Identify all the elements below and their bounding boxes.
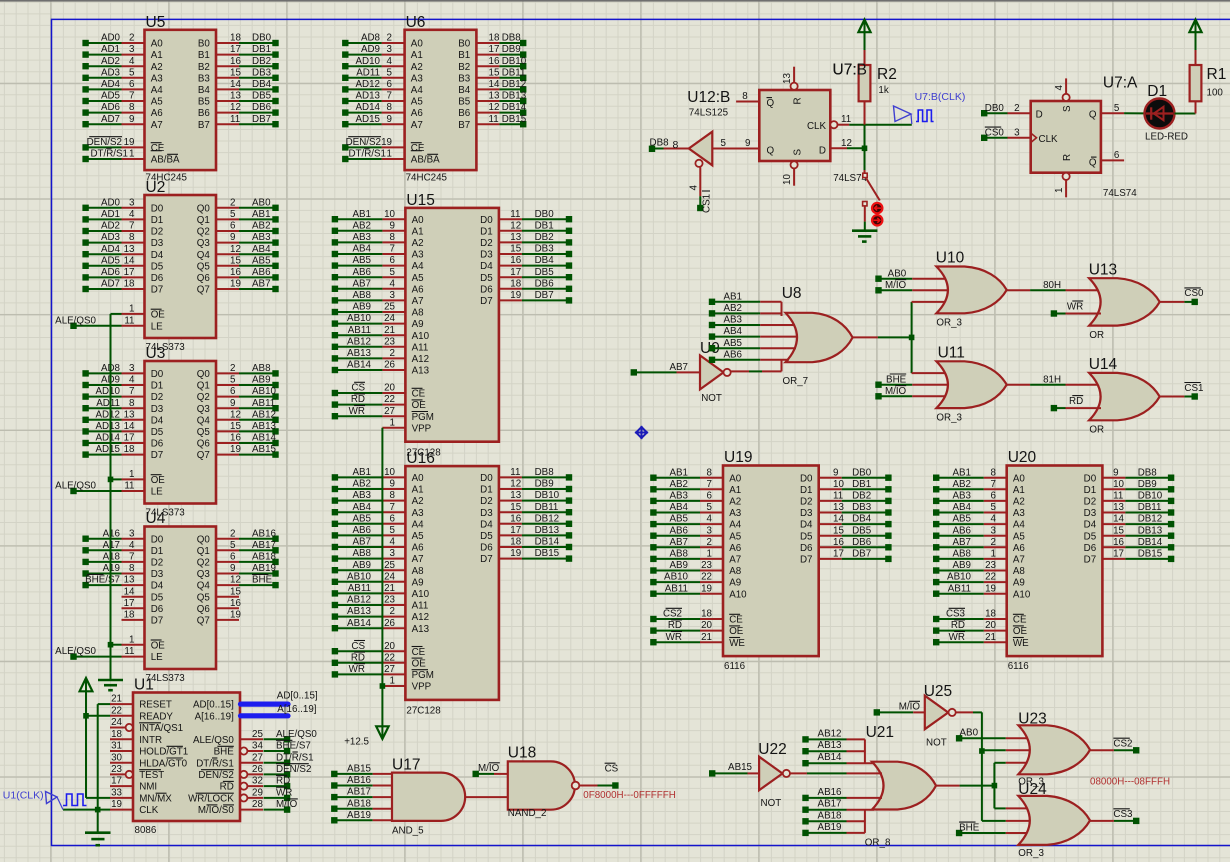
svg-text:12: 12 xyxy=(510,220,521,231)
svg-text:A1: A1 xyxy=(412,485,424,496)
svg-text:A4: A4 xyxy=(729,520,742,531)
U5 value 74HC245 xyxy=(146,173,188,184)
svg-text:AB5: AB5 xyxy=(352,513,371,524)
U7:A reference xyxy=(1103,75,1138,92)
U20 left pin 8 AB1 xyxy=(933,467,1025,484)
svg-text:8: 8 xyxy=(129,563,135,574)
svg-text:U8: U8 xyxy=(782,285,802,302)
U3 reference label xyxy=(146,345,166,362)
svg-text:A1: A1 xyxy=(412,226,424,237)
svg-text:D3: D3 xyxy=(480,250,493,261)
svg-text:R: R xyxy=(1062,154,1073,161)
svg-text:15: 15 xyxy=(230,255,241,266)
U5 left pin 2 AD0 xyxy=(82,33,163,50)
svg-text:19: 19 xyxy=(510,548,521,559)
wire switch to ground xyxy=(864,222,866,231)
U19 left pin 7 AB2 xyxy=(650,479,741,496)
svg-text:R: R xyxy=(793,97,804,104)
svg-text:3: 3 xyxy=(387,44,393,55)
svg-text:U5: U5 xyxy=(146,14,166,31)
U4 right pin 12 BHE xyxy=(197,574,279,591)
U20 left pin 6 AB3 xyxy=(933,491,1025,508)
svg-text:Q4: Q4 xyxy=(197,415,211,426)
svg-text:U16: U16 xyxy=(406,450,434,467)
svg-text:AB18: AB18 xyxy=(252,552,277,563)
svg-text:DB8: DB8 xyxy=(1138,467,1158,478)
svg-text:17: 17 xyxy=(489,44,500,55)
svg-text:15: 15 xyxy=(510,244,521,255)
net AB14 terminal + wire to U21 input xyxy=(802,752,874,766)
svg-text:AB9: AB9 xyxy=(952,560,971,571)
U16 left pin 2 AB13 xyxy=(332,606,429,623)
svg-text:DB12: DB12 xyxy=(502,79,527,90)
svg-text:AB3: AB3 xyxy=(723,315,742,326)
svg-text:D0: D0 xyxy=(151,203,164,214)
svg-text:19: 19 xyxy=(230,610,241,621)
U19 left pin 23 AB9 xyxy=(650,560,742,577)
U7:A pin 4 (S, top) xyxy=(1054,78,1070,101)
svg-text:A5: A5 xyxy=(411,97,424,108)
wire U21 vertical to U24 in1 xyxy=(994,807,1027,809)
svg-text:A8: A8 xyxy=(729,566,742,577)
U2 right pin 15 AB5 xyxy=(197,255,279,272)
IC U19 (6116) body xyxy=(723,466,819,657)
U2 right pin 5 AB1 xyxy=(197,209,279,226)
svg-text:DEN/S2: DEN/S2 xyxy=(87,137,122,148)
U1 value 8086 xyxy=(135,825,157,836)
svg-text:5: 5 xyxy=(230,540,236,551)
svg-text:AB1: AB1 xyxy=(252,209,271,220)
wire U25 output to vertical xyxy=(956,711,982,713)
svg-text:AB12: AB12 xyxy=(818,728,842,739)
svg-text:D1: D1 xyxy=(480,485,493,496)
U20 left pin 18 CS3 xyxy=(933,608,1027,625)
svg-text:NOT: NOT xyxy=(926,738,947,749)
svg-text:U15: U15 xyxy=(406,192,434,209)
U15 left pin 22 RD xyxy=(332,394,427,411)
U15 left pin 23 AB12 xyxy=(332,336,429,353)
junction U16 VPP xyxy=(380,683,386,689)
svg-text:2: 2 xyxy=(230,197,235,208)
svg-text:1: 1 xyxy=(390,676,395,687)
U16 reference label xyxy=(406,450,434,467)
svg-text:AB4: AB4 xyxy=(952,502,971,513)
svg-text:16: 16 xyxy=(230,598,241,609)
svg-text:U11: U11 xyxy=(938,345,965,362)
U16 left pin 7 AB4 xyxy=(332,502,424,519)
U14 reference xyxy=(1089,356,1118,373)
svg-text:AB6: AB6 xyxy=(352,525,371,536)
IC U6 (74HC245) body xyxy=(405,30,477,170)
U15 left pin 3 AB8 xyxy=(332,290,424,307)
svg-text:7: 7 xyxy=(129,552,134,563)
svg-text:10: 10 xyxy=(782,174,793,185)
junction D/switch node xyxy=(862,146,868,152)
wire U1 RESET to ground rail xyxy=(98,704,110,833)
svg-text:DB10: DB10 xyxy=(1138,491,1163,502)
svg-text:A13: A13 xyxy=(412,624,430,635)
U6 left pin 19 DEN/S2 xyxy=(342,137,425,154)
U8 input wing top xyxy=(781,302,783,316)
svg-text:AB13: AB13 xyxy=(347,348,372,359)
svg-text:26: 26 xyxy=(384,360,395,371)
U12:B reference xyxy=(687,89,730,106)
U5 left pin 6 AD4 xyxy=(82,79,163,96)
svg-text:D3: D3 xyxy=(800,508,813,519)
U4 left pin 1 OE xyxy=(122,634,166,651)
OR_3 gate U23 body xyxy=(1018,725,1090,774)
svg-text:23: 23 xyxy=(111,764,122,775)
U2 left pin 3 AD0 xyxy=(82,197,163,214)
svg-text:DB11: DB11 xyxy=(1138,502,1162,513)
svg-text:Q4: Q4 xyxy=(197,581,211,592)
U15 right pin 18 DB6 xyxy=(480,278,572,295)
svg-text:B5: B5 xyxy=(198,97,211,108)
svg-text:8086: 8086 xyxy=(135,825,157,836)
svg-text:DB10: DB10 xyxy=(535,490,560,501)
svg-text:AD12: AD12 xyxy=(355,79,380,90)
U2 right pin 16 AB6 xyxy=(197,267,279,284)
U6 left pin 5 AD11 xyxy=(342,67,423,84)
U19 left pin 19 AB11 xyxy=(650,583,747,600)
U20 left pin 20 RD xyxy=(933,620,1028,637)
svg-text:WR: WR xyxy=(276,788,292,799)
svg-text:DB1: DB1 xyxy=(252,44,271,55)
U20 left pin 7 AB2 xyxy=(933,479,1025,496)
U5 right pin 17 DB1 xyxy=(198,44,279,61)
U5 left pin 19 DEN/S2 xyxy=(82,137,164,154)
net M/IO terminal + wire to U25 xyxy=(874,701,925,715)
svg-text:AB1: AB1 xyxy=(352,467,371,478)
svg-text:Q6: Q6 xyxy=(197,604,211,615)
svg-text:U22: U22 xyxy=(758,741,786,758)
U15 left pin 8 AB3 xyxy=(332,232,424,249)
U16 left pin 6 AB5 xyxy=(332,513,424,530)
svg-text:B4: B4 xyxy=(198,85,211,96)
U17 reference xyxy=(392,757,420,774)
svg-text:A4: A4 xyxy=(412,519,425,530)
svg-text:19: 19 xyxy=(230,279,241,290)
net CS1 output of U14 xyxy=(1160,383,1204,400)
svg-text:6: 6 xyxy=(230,552,236,563)
svg-text:25: 25 xyxy=(252,729,263,740)
svg-text:D4: D4 xyxy=(800,520,813,531)
svg-text:2: 2 xyxy=(991,537,996,548)
svg-text:AB3: AB3 xyxy=(669,491,688,502)
svg-text:A3: A3 xyxy=(729,508,742,519)
U16 left pin 27 WR xyxy=(332,664,434,681)
svg-text:13: 13 xyxy=(510,490,521,501)
svg-text:10: 10 xyxy=(833,479,844,490)
svg-text:DB6: DB6 xyxy=(852,537,872,548)
svg-text:OE: OE xyxy=(412,400,427,411)
net label ALE/QS0 terminal + wire xyxy=(55,646,121,660)
svg-text:30: 30 xyxy=(111,752,122,763)
OR gate U13 body xyxy=(1089,278,1160,325)
net M/IO wire from U1 xyxy=(264,799,298,813)
svg-text:AB15: AB15 xyxy=(347,764,372,775)
net WR terminal + wire to U13 in2 xyxy=(1051,301,1101,317)
U15 left pin 21 AB11 xyxy=(332,325,430,342)
IC U16 (27C128) body xyxy=(405,466,499,700)
junction RESET/CLK rail at CLK row xyxy=(95,807,101,813)
svg-text:VPP: VPP xyxy=(412,423,432,434)
svg-text:U14: U14 xyxy=(1089,356,1118,373)
svg-text:AB7: AB7 xyxy=(252,279,271,290)
svg-text:A0: A0 xyxy=(411,39,424,50)
svg-text:1k: 1k xyxy=(878,85,888,96)
svg-text:14: 14 xyxy=(124,421,135,432)
U16 left pin 10 AB1 xyxy=(332,467,424,484)
U1 left pin 30 HLDA/GT0 xyxy=(110,752,188,769)
svg-text:Q: Q xyxy=(767,146,775,157)
svg-text:DB5: DB5 xyxy=(852,525,872,536)
svg-text:AB2: AB2 xyxy=(723,303,742,314)
svg-text:U18: U18 xyxy=(508,745,536,762)
svg-text:Q4: Q4 xyxy=(197,250,211,261)
svg-text:5: 5 xyxy=(230,375,236,386)
svg-text:1: 1 xyxy=(387,149,392,160)
svg-text:4: 4 xyxy=(129,209,135,220)
U3 right pin 9 AB11 xyxy=(197,398,279,415)
U16 left pin 5 AB6 xyxy=(332,525,424,542)
net AB4 terminal + wire to U8 input 4 xyxy=(709,326,798,340)
svg-text:17: 17 xyxy=(510,267,521,278)
svg-text:D: D xyxy=(1036,110,1043,121)
svg-text:OR_3: OR_3 xyxy=(936,318,962,329)
svg-text:AB12: AB12 xyxy=(347,336,371,347)
svg-text:WE: WE xyxy=(1013,638,1029,649)
U3 left pin 3 AD8 xyxy=(82,363,163,380)
svg-text:AB8: AB8 xyxy=(252,363,271,374)
svg-text:B2: B2 xyxy=(198,62,210,73)
U7:B value 74LS74 xyxy=(833,173,867,184)
svg-text:26: 26 xyxy=(384,618,395,629)
svg-text:DB4: DB4 xyxy=(252,79,272,90)
svg-text:AD14: AD14 xyxy=(95,433,120,444)
svg-text:11: 11 xyxy=(833,491,843,502)
U3 left pin 11 LE xyxy=(122,481,164,498)
svg-text:AB15: AB15 xyxy=(252,444,277,455)
svg-text:AB13: AB13 xyxy=(252,421,277,432)
svg-text:INTA/QS1: INTA/QS1 xyxy=(139,723,183,734)
svg-text:D: D xyxy=(819,146,826,157)
U16 right pin 17 DB13 xyxy=(480,525,572,542)
U19 left pin 1 AB8 xyxy=(650,549,741,566)
svg-text:18: 18 xyxy=(111,729,122,740)
U9 reference xyxy=(700,340,720,357)
svg-text:2: 2 xyxy=(390,348,395,359)
U10 value OR_3 xyxy=(936,318,962,329)
net AB12 terminal + wire to U21 input xyxy=(802,728,865,742)
svg-text:U7:B: U7:B xyxy=(833,62,867,79)
R2 value 1k xyxy=(878,85,888,96)
svg-text:7: 7 xyxy=(129,221,134,232)
svg-text:11: 11 xyxy=(841,114,851,125)
svg-text:CE: CE xyxy=(412,389,426,400)
svg-text:8: 8 xyxy=(129,232,135,243)
net BHE terminal + wire to U24 in3 xyxy=(956,822,1028,836)
IC U20 (6116) body xyxy=(1007,466,1103,657)
svg-text:18: 18 xyxy=(124,279,135,290)
AND_5 gate U17 body xyxy=(392,773,465,821)
svg-text:U1: U1 xyxy=(134,677,154,694)
U4 left pin 13 BHE/S7 xyxy=(82,574,163,591)
svg-text:AB7: AB7 xyxy=(352,537,371,548)
U15 left pin 1 VPP xyxy=(382,417,431,434)
svg-text:D1: D1 xyxy=(151,546,164,557)
svg-text:U7:A: U7:A xyxy=(1103,75,1138,92)
U7:B inner labels xyxy=(767,97,827,156)
svg-text:5: 5 xyxy=(390,267,396,278)
svg-text:A6: A6 xyxy=(729,543,742,554)
U4 right pin 9 AB19 xyxy=(197,563,279,580)
svg-text:DB10: DB10 xyxy=(502,56,527,67)
svg-text:3: 3 xyxy=(129,44,135,55)
svg-text:OE: OE xyxy=(151,475,166,486)
svg-text:11: 11 xyxy=(510,209,520,220)
svg-text:AB5: AB5 xyxy=(669,514,688,525)
svg-text:AB18: AB18 xyxy=(347,798,372,809)
svg-text:NOT: NOT xyxy=(701,393,722,404)
U20 left pin 1 AB8 xyxy=(933,549,1025,566)
svg-text:8: 8 xyxy=(387,102,393,113)
OR gate U14 body xyxy=(1089,373,1160,420)
svg-text:A1: A1 xyxy=(1013,485,1025,496)
svg-text:RD: RD xyxy=(668,620,682,631)
U15 left pin 27 WR xyxy=(332,406,434,423)
svg-text:D7: D7 xyxy=(480,296,493,307)
overline S0 of M/IO/S0 xyxy=(223,804,234,806)
svg-text:DB1: DB1 xyxy=(852,479,871,490)
svg-text:AB4: AB4 xyxy=(723,326,742,337)
svg-text:A[16..19]: A[16..19] xyxy=(195,711,234,722)
U6 right pin 12 DB14 xyxy=(458,102,527,119)
svg-text:DB14: DB14 xyxy=(535,537,560,548)
svg-text:WR: WR xyxy=(666,632,682,643)
svg-text:27: 27 xyxy=(252,752,263,763)
power arrow +12.5 (down) xyxy=(344,722,388,748)
svg-text:DB13: DB13 xyxy=(535,525,560,536)
svg-text:AB2: AB2 xyxy=(669,479,688,490)
U22 value NOT xyxy=(761,798,782,809)
U3 left pin 8 AD11 xyxy=(82,398,163,415)
svg-text:DB0: DB0 xyxy=(985,103,1005,114)
net DB8 output of U12:B xyxy=(649,137,689,152)
svg-text:AB8: AB8 xyxy=(669,549,688,560)
svg-text:21: 21 xyxy=(701,632,712,643)
U20 left pin 5 AB4 xyxy=(933,502,1025,519)
svg-text:9: 9 xyxy=(833,467,838,478)
OR_3 gate U11 body xyxy=(936,361,1006,408)
svg-text:AB19: AB19 xyxy=(818,822,842,833)
svg-text:A18: A18 xyxy=(103,552,121,563)
U11 reference xyxy=(938,345,965,362)
svg-text:CE: CE xyxy=(729,615,743,626)
svg-text:A10: A10 xyxy=(412,331,430,342)
IC U3 (74LS373) body xyxy=(145,361,217,504)
svg-text:15: 15 xyxy=(489,67,500,78)
U8 reference xyxy=(782,285,802,302)
svg-text:2: 2 xyxy=(129,33,134,44)
net RD wire from U1 xyxy=(264,775,291,789)
U19 left pin 4 AB5 xyxy=(650,514,742,531)
svg-text:14: 14 xyxy=(230,79,241,90)
svg-text:4: 4 xyxy=(129,540,135,551)
U13 value OR xyxy=(1089,330,1104,341)
U2 left pin 17 AD6 xyxy=(82,267,163,284)
svg-text:DB1: DB1 xyxy=(535,220,554,231)
svg-text:AD7: AD7 xyxy=(101,279,120,290)
svg-text:13: 13 xyxy=(124,244,135,255)
svg-text:U3: U3 xyxy=(146,345,166,362)
svg-text:AD11: AD11 xyxy=(356,67,380,78)
U3 left pin 14 AD13 xyxy=(82,421,163,438)
svg-text:Q2: Q2 xyxy=(197,227,210,238)
U19 right pin 13 DB3 xyxy=(800,502,892,519)
U2 left pin 14 AD5 xyxy=(82,255,163,272)
svg-text:MN/MX: MN/MX xyxy=(139,794,172,805)
svg-text:Q7: Q7 xyxy=(197,450,210,461)
U3 value 74LS373 xyxy=(146,508,186,519)
svg-text:DB15: DB15 xyxy=(502,114,527,125)
svg-text:27: 27 xyxy=(384,664,395,675)
svg-text:13: 13 xyxy=(489,91,500,102)
svg-text:DB14: DB14 xyxy=(502,102,527,113)
svg-text:AB19: AB19 xyxy=(252,563,276,574)
svg-text:AB11: AB11 xyxy=(665,583,688,594)
svg-text:D1: D1 xyxy=(480,226,493,237)
svg-text:D6: D6 xyxy=(151,439,164,450)
svg-text:8: 8 xyxy=(390,490,396,501)
U19 right pin 11 DB2 xyxy=(800,491,892,508)
U16 left pin 24 AB10 xyxy=(332,571,424,588)
svg-text:U25: U25 xyxy=(924,683,952,700)
svg-text:11: 11 xyxy=(489,114,499,125)
svg-text:U1(CLK): U1(CLK) xyxy=(3,790,44,802)
svg-text:OE: OE xyxy=(729,626,744,637)
U1 right pin A[16..19] xyxy=(195,711,263,722)
svg-text:D6: D6 xyxy=(151,273,164,284)
svg-text:AD0: AD0 xyxy=(101,33,121,44)
svg-text:AB6: AB6 xyxy=(723,349,742,360)
svg-text:DB13: DB13 xyxy=(502,91,527,102)
bus A[16..19] xyxy=(241,704,317,716)
svg-text:21: 21 xyxy=(384,583,395,594)
net label ALE/QS0 terminal + wire xyxy=(55,481,121,495)
svg-text:15: 15 xyxy=(1113,525,1124,536)
svg-text:DB15: DB15 xyxy=(1138,549,1163,560)
svg-text:D7: D7 xyxy=(1084,555,1097,566)
svg-text:B7: B7 xyxy=(198,120,210,131)
U20 left pin 2 AB7 xyxy=(933,537,1025,554)
U12:B value 74LS125 xyxy=(689,108,729,119)
junction U21 output xyxy=(992,783,998,789)
svg-text:BHE: BHE xyxy=(214,747,235,758)
svg-text:ALE/QS0: ALE/QS0 xyxy=(193,735,234,746)
svg-text:CS: CS xyxy=(605,764,619,775)
svg-text:AB16: AB16 xyxy=(252,528,277,539)
inversion bubble xyxy=(240,771,247,778)
svg-text:CLK: CLK xyxy=(1039,134,1059,145)
svg-text:6116: 6116 xyxy=(724,661,746,672)
svg-text:VPP: VPP xyxy=(412,682,432,693)
svg-text:5: 5 xyxy=(721,138,727,149)
U5 AB overline xyxy=(151,150,162,152)
svg-text:AB9: AB9 xyxy=(352,302,371,313)
U4 left pin 7 A18 xyxy=(82,552,163,569)
svg-text:2: 2 xyxy=(707,537,712,548)
